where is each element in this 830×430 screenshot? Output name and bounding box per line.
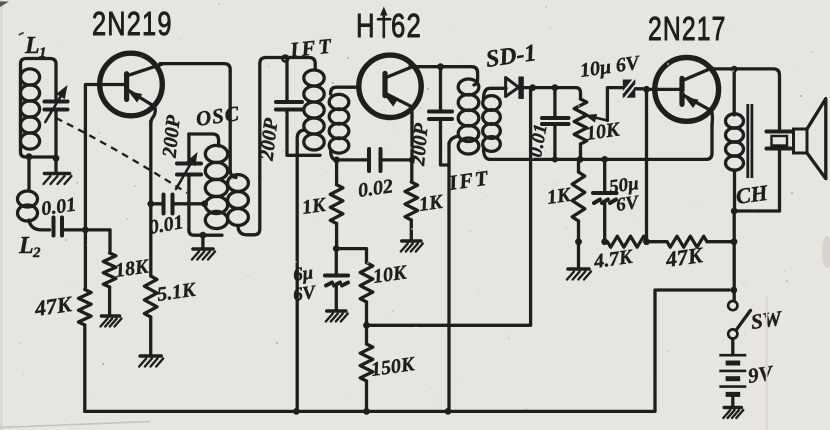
svg-text:H: H	[356, 8, 376, 45]
node rail 1	[293, 408, 300, 415]
node OSC tap	[201, 200, 208, 207]
wire bias right	[707, 240, 734, 243]
label 6u	[292, 262, 318, 306]
capacitor 6u 6V	[325, 249, 348, 310]
node IFT2 cap top	[437, 63, 444, 70]
ground G4	[139, 356, 163, 367]
ground G3	[101, 316, 122, 327]
label SD-1	[484, 40, 538, 73]
ground G8	[723, 408, 743, 419]
node ret 3	[601, 156, 608, 163]
variable capacitor C2 200P	[176, 134, 201, 230]
node 6u junction	[333, 245, 340, 252]
label 150K	[370, 353, 418, 381]
label 10K pot	[585, 118, 623, 145]
node bias 2	[601, 238, 608, 245]
wire base node	[62, 228, 110, 231]
transistor Q3 2N217	[655, 58, 719, 127]
label HT62	[356, 7, 422, 45]
label 50u	[608, 173, 641, 216]
node IF secondary bottom	[333, 157, 340, 164]
battery 9V	[719, 339, 746, 407]
wire Q2 emitter down	[410, 122, 413, 160]
diode SD-1	[504, 77, 576, 99]
label 47K	[32, 291, 74, 321]
label 0.02	[357, 175, 395, 202]
node emitter junction	[147, 200, 154, 207]
coil OSC primary	[189, 134, 228, 229]
speaker	[767, 99, 826, 179]
wire IFT1 bottom	[287, 154, 320, 157]
label 0.01 L2	[40, 194, 78, 221]
wire speaker bottom	[734, 150, 779, 211]
svg-text:2N217: 2N217	[648, 12, 727, 48]
label 10u 6V	[579, 52, 643, 82]
label 5.1K	[156, 279, 199, 306]
capacitor 0.01 det	[542, 88, 569, 160]
label 2N217	[648, 12, 727, 48]
coil L2	[18, 157, 50, 230]
label 200P OSC	[158, 113, 184, 159]
choke core	[748, 104, 752, 178]
resistor 1K right	[405, 160, 418, 239]
wire Q3 collector	[710, 69, 780, 129]
svg-text:62: 62	[391, 8, 422, 45]
resistor 47K	[79, 230, 92, 412]
choke CH	[726, 69, 744, 211]
node Q2 emitter junction	[409, 157, 415, 163]
wire OSC tank bottom	[189, 230, 222, 235]
capacitor 0.02	[337, 149, 412, 171]
wire bottom rail	[85, 290, 729, 411]
svg-text:2: 2	[32, 245, 41, 261]
svg-text:CH: CH	[734, 180, 770, 209]
wire battery column	[733, 211, 736, 301]
node OSC ground	[200, 232, 207, 239]
coil IFT2 secondary	[483, 88, 504, 159]
ground G1	[44, 158, 72, 184]
transistor Q1 2N219	[100, 53, 163, 124]
node choke bottom	[731, 208, 738, 215]
wire IFT2 tap to rail	[447, 143, 450, 411]
label 47K bias	[663, 242, 705, 272]
svg-text:IFT: IFT	[288, 34, 335, 63]
label 1K left	[301, 194, 329, 219]
wire 2N219 base	[85, 85, 126, 230]
wire L1 bottom	[21, 152, 57, 157]
capacitor 0.01 OSC	[151, 195, 205, 214]
variable capacitor C1a	[45, 85, 68, 122]
capacitor 0.01 L2	[54, 218, 63, 236]
coil OSC secondary	[228, 175, 260, 235]
node rail 3	[445, 408, 452, 415]
resistor 10K agc	[336, 249, 373, 326]
ground G5	[401, 241, 423, 252]
wire L1 top	[21, 59, 57, 101]
node base junction	[82, 227, 89, 234]
capacitor 50u 6V	[593, 159, 617, 241]
label L2	[18, 233, 41, 261]
wire AGC feedback	[367, 88, 531, 326]
wire Q1 collector	[160, 64, 236, 178]
node ret 2	[577, 156, 584, 163]
label 10K agc	[372, 261, 410, 288]
switch SW	[728, 301, 750, 339]
capacitor 10u 6V	[623, 77, 644, 102]
wire IFT1 tap to rail	[296, 143, 299, 411]
node ret 1	[552, 156, 558, 162]
coil IFT1 secondary	[329, 87, 359, 160]
node IFT1 top	[282, 56, 288, 62]
svg-text:L: L	[24, 33, 40, 59]
node step	[730, 287, 737, 294]
wire C1a to node	[54, 110, 57, 158]
ground G7	[567, 269, 591, 280]
node det 1	[529, 84, 536, 91]
wire bias mid	[647, 240, 667, 243]
label 18K	[114, 255, 152, 282]
svg-text:2N219: 2N219	[92, 6, 173, 43]
pot wiper	[585, 88, 623, 123]
gang dashed link	[56, 118, 187, 193]
transistor Q2 HT62	[359, 55, 421, 124]
wire Q2 collector	[410, 67, 478, 85]
label 0.01 det	[525, 122, 551, 158]
label 9V	[746, 360, 776, 387]
node bias 3	[643, 238, 650, 245]
resistor 1K left	[330, 160, 343, 249]
resistor 5.1K	[144, 204, 157, 355]
wire Q3 emitter	[706, 124, 712, 159]
label SW	[749, 306, 784, 334]
label CH	[734, 180, 770, 209]
ground G6	[326, 311, 348, 322]
svg-text:6V: 6V	[615, 192, 641, 216]
wire base bias	[645, 89, 648, 241]
label 200P IFT2	[407, 122, 433, 168]
node L1 tap	[26, 153, 60, 161]
label L1	[24, 33, 47, 61]
label 4.7K	[592, 246, 636, 273]
resistor 1K af	[572, 159, 585, 268]
label OSC	[194, 101, 241, 131]
node bias 1	[575, 238, 582, 245]
svg-text:6V: 6V	[292, 282, 318, 306]
potentiometer 10K	[574, 88, 587, 160]
wire IFT1 top	[260, 58, 315, 178]
coil L1	[20, 64, 39, 152]
node Q3 base	[643, 86, 650, 93]
capacitor 200P IFT2	[429, 67, 452, 165]
label IFT 1	[288, 34, 335, 63]
label IFT 2	[446, 165, 491, 195]
node det 2	[552, 84, 559, 91]
svg-text:200P: 200P	[407, 122, 433, 168]
node rail 2	[363, 408, 370, 415]
ground G2	[192, 235, 215, 259]
coil IFT2 primary	[449, 79, 479, 154]
svg-text:L: L	[18, 233, 34, 259]
node agc junction	[363, 322, 370, 329]
wire to Q3 base	[647, 88, 681, 91]
node choke top	[731, 66, 738, 73]
coil IFT1 primary	[297, 70, 324, 150]
wire return bus	[490, 158, 706, 161]
node bias 4	[731, 238, 738, 245]
resistor 18K	[103, 230, 116, 315]
label 200P IFT1	[256, 116, 283, 162]
capacitor 200P IFT1	[276, 58, 302, 156]
resistor 47K bias	[667, 236, 707, 247]
svg-text:200P: 200P	[158, 113, 184, 159]
label 2N219	[92, 6, 173, 43]
label 0.01 OSC	[147, 211, 185, 239]
wire Q1 emitter	[149, 121, 152, 204]
label 1K af	[546, 184, 574, 209]
label 1K right	[418, 191, 446, 216]
resistor 150K	[360, 325, 373, 411]
resistor 4.7K	[607, 236, 647, 247]
